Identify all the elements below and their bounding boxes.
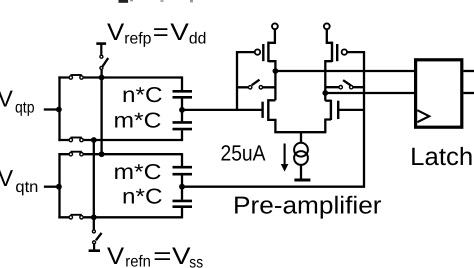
capacitor C2 m*C plates <box>173 122 193 129</box>
switch S5 right contact <box>259 86 262 89</box>
wire M1 drain stub and drain vertical <box>268 60 275 100</box>
svg-text:=: = <box>153 243 171 268</box>
wire M1 gate to left vertical <box>237 52 254 110</box>
cropped text remnant at top edge <box>119 0 194 3</box>
label Vqtp <box>0 86 35 117</box>
wire Vqtn input <box>44 186 59 188</box>
wire top box left vertical <box>58 76 60 141</box>
switch S1 stub <box>100 44 102 55</box>
node M1 drain / out1 junction <box>273 68 279 74</box>
switch S1 arm <box>103 58 109 67</box>
wire bottom box bottom with switch S3b <box>58 215 182 219</box>
svg-text:refp: refp <box>124 31 151 48</box>
transistor M1 gate bubble <box>255 49 260 54</box>
supply terminal left <box>272 23 278 29</box>
current source I1 upper circle <box>294 143 308 157</box>
switch S6 arm <box>343 80 351 85</box>
node node2 (bottom DAC output) <box>179 184 185 190</box>
capacitor C3 m*C stub top <box>181 153 183 166</box>
wire M3 source stub <box>268 119 275 132</box>
wire bus B (Vrefn bus) <box>93 139 95 230</box>
wire M4 gate to right vertical <box>338 109 364 111</box>
svg-text:Latch: Latch <box>410 143 473 171</box>
label Vqtn <box>0 165 38 196</box>
wire M4 drain stub <box>325 100 331 102</box>
transistor M4 NMOS right channel <box>330 100 332 120</box>
switch S5 left contact <box>249 86 252 89</box>
svg-text:V: V <box>0 86 14 112</box>
switch S6 left contact <box>339 86 342 89</box>
switch S4 upper contact <box>92 230 95 233</box>
wire M2 drain stub and drain vertical <box>325 60 332 101</box>
wire common source rail <box>274 131 326 133</box>
capacitor C1 n*C stub top <box>181 76 183 90</box>
svg-text:dd: dd <box>189 31 207 48</box>
switch S1 lower contact <box>100 67 103 70</box>
node Vqtn input junction <box>56 184 62 190</box>
svg-text:Pre-amplifier: Pre-amplifier <box>233 193 382 220</box>
wire tail stub to current source <box>300 132 302 143</box>
svg-text:n*C: n*C <box>122 184 163 208</box>
svg-text:=: = <box>153 19 169 46</box>
node Vqtp input junction <box>56 107 62 113</box>
svg-text:m*C: m*C <box>114 108 162 132</box>
capacitor C1 n*C plates <box>173 91 193 97</box>
label Vrefp=Vdd <box>107 19 206 47</box>
arrow current direction <box>281 144 289 172</box>
svg-text:ss: ss <box>189 254 203 268</box>
switch S5 arm <box>252 80 260 86</box>
node bus B / bottom box bottom wire junction <box>91 214 97 220</box>
switch S6 right contact <box>350 86 353 89</box>
svg-text:25uA: 25uA <box>221 140 266 165</box>
wire Vqtp input <box>44 108 59 110</box>
node M2 drain / out2 junction <box>322 90 328 96</box>
svg-text:refn: refn <box>125 253 151 268</box>
switch S4 stub <box>93 244 95 249</box>
svg-text:V: V <box>172 243 191 268</box>
node bus A / bottom box top wire junction <box>99 151 105 157</box>
wire latch out2 <box>463 92 474 94</box>
switch S5 wire segments <box>237 86 275 88</box>
svg-text:V: V <box>107 19 124 46</box>
svg-text:V: V <box>170 19 189 46</box>
wire current source to ground <box>300 165 302 179</box>
wire latch out1 <box>463 70 474 72</box>
svg-text:V: V <box>107 243 124 268</box>
wire M4 source stub <box>325 119 331 133</box>
node bus B / top box bottom wire junction <box>91 137 97 143</box>
svg-text:qtp: qtp <box>15 100 35 117</box>
label Vrefn=Vss <box>107 243 203 268</box>
switch S1 upper contact <box>100 55 103 58</box>
svg-text:n*C: n*C <box>122 83 163 107</box>
switch S4 Vrefn terminal bar <box>89 249 100 252</box>
switch S1 Vrefp terminal bar <box>96 42 106 45</box>
capacitor C4 stub bottom <box>181 208 183 219</box>
transistor M3 channel <box>267 99 269 121</box>
capacitor C3 m*C plates <box>173 167 193 174</box>
switch S6 wire segments <box>325 86 364 88</box>
transistor M2 PMOS right channel <box>331 42 333 62</box>
wire node2 to right input vertical and M2 gate <box>182 52 364 187</box>
transistor M2 gate bubble <box>342 49 347 54</box>
latch U1 box <box>416 60 462 127</box>
capacitor C2 stub bottom <box>181 130 183 141</box>
transistor M2 gate plate <box>336 44 338 61</box>
latch U1 clock chevron <box>417 110 429 122</box>
supply terminal right <box>324 23 330 29</box>
transistor M1 gate plate <box>262 44 264 61</box>
wire out1 to latch <box>275 70 414 72</box>
capacitor C4 n*C plates <box>173 201 193 207</box>
node bus A / top plate wire junction <box>99 75 105 81</box>
wire top box top with switch S2a <box>58 75 182 79</box>
wire bus A (Vrefp bus) <box>100 70 102 155</box>
capacitor C3 to node2 stub <box>181 175 183 199</box>
transistor M3 NMOS left gate plate <box>261 102 263 118</box>
wire left supply stub <box>268 29 275 43</box>
capacitor C1 to node1 stub <box>181 99 183 122</box>
switch S4 lower contact <box>93 241 96 244</box>
transistor M4 gate plate <box>337 101 339 119</box>
svg-text:V: V <box>0 165 14 191</box>
svg-text:qtn: qtn <box>15 179 38 196</box>
wire out2 to latch <box>325 92 414 94</box>
svg-text:m*C: m*C <box>114 160 162 184</box>
current source I1 lower circle <box>294 151 308 165</box>
node node1 (top DAC output) <box>179 107 185 113</box>
wire bottom box top with switch S3a <box>58 152 182 156</box>
transistor M1 PMOS left channel <box>267 42 269 62</box>
ground bar <box>294 179 310 182</box>
wire top box bottom with switch S2b <box>58 138 182 142</box>
switch S4 arm <box>96 233 102 240</box>
wire bottom box left vertical <box>58 153 60 218</box>
wire right supply stub <box>327 29 332 43</box>
wire M3 drain stub <box>268 99 275 101</box>
wire node1 to M3 gate <box>182 109 263 111</box>
